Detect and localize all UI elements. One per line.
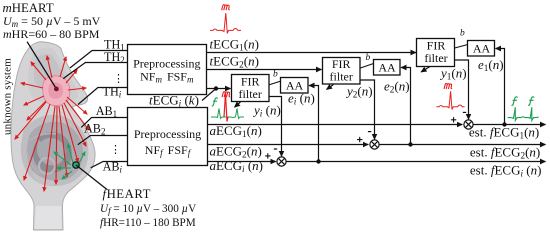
sum node i xyxy=(277,157,286,166)
svg-text:est. fECG2(n): est. fECG2(n) xyxy=(470,145,540,161)
m label red small xyxy=(222,92,230,98)
leader tECGi(k) xyxy=(202,89,216,101)
wire aECG2 to sum2 xyxy=(207,144,368,146)
FIR filter box channel 1 xyxy=(417,39,455,67)
svg-text:aECG1(n): aECG1(n) xyxy=(210,123,262,139)
svg-text:AB1: AB1 xyxy=(96,104,117,119)
node e1 tap dot xyxy=(502,122,506,126)
svg-text:⋮: ⋮ xyxy=(113,73,124,85)
svg-text:Preprocessing: Preprocessing xyxy=(133,56,200,70)
svg-text:NFm FSFm: NFm FSFm xyxy=(140,69,194,84)
svg-text:Preprocessing: Preprocessing xyxy=(134,127,201,141)
mHEART leader line xyxy=(27,42,56,89)
svg-text:filter: filter xyxy=(424,51,447,65)
wire aECG1 to sum1 xyxy=(207,124,462,126)
svg-text:THi: THi xyxy=(103,85,122,100)
svg-text:filter: filter xyxy=(239,87,262,101)
svg-text:e2(n): e2(n) xyxy=(384,79,410,95)
preprocessing box fetal U2 xyxy=(128,108,208,166)
svg-text:b: b xyxy=(273,70,278,80)
wire y2: FIR2 out down to sum 2 xyxy=(360,80,374,139)
svg-text:fHEART: fHEART xyxy=(103,187,151,201)
svg-text:ei (n): ei (n) xyxy=(288,91,315,107)
fHEART text block xyxy=(100,187,196,229)
svg-text:aECGi (n): aECGi (n) xyxy=(210,158,264,174)
b link FIRi to AAi xyxy=(269,81,281,85)
TH labels xyxy=(103,38,125,100)
wire e1: from dot up into AA1 xyxy=(496,49,505,125)
svg-text:NFf FSFf: NFf FSFf xyxy=(145,143,192,158)
plus sign sum i xyxy=(265,153,270,158)
plus sign sum1 xyxy=(451,117,456,122)
wire tECG2 xyxy=(207,69,322,71)
TH electrode wires xyxy=(63,51,127,105)
fHEART green dot xyxy=(73,162,79,168)
wire tECGi xyxy=(207,88,231,90)
AB labels xyxy=(84,104,123,175)
minus sign sum1 xyxy=(463,111,466,113)
belly uterus region xyxy=(21,115,89,186)
svg-text:est. fECGi (n): est. fECGi (n) xyxy=(470,163,542,179)
AA box channel 2 xyxy=(374,60,401,76)
svg-text:tECGi (k): tECGi (k) xyxy=(149,93,199,109)
svg-text:mHEART: mHEART xyxy=(3,1,54,15)
wire tECG1 xyxy=(207,52,417,54)
wire ei: from dot up into AAi xyxy=(309,86,319,162)
svg-text:AA: AA xyxy=(473,42,491,56)
svg-text:filter: filter xyxy=(330,70,353,84)
minus sign sum2 xyxy=(368,131,371,133)
sum node 2 xyxy=(370,140,379,149)
node ei tap dot xyxy=(316,159,320,163)
green arrows radiating from fetal heart xyxy=(54,144,85,179)
AA box channel 1 xyxy=(468,41,495,57)
chest inner shading xyxy=(28,48,78,103)
svg-text:b: b xyxy=(460,29,465,39)
svg-text:AB2: AB2 xyxy=(84,122,105,137)
svg-text:tECG2(n): tECG2(n) xyxy=(210,54,259,70)
AA box channel i xyxy=(281,78,309,94)
m waveform above preprocessing (tECG1 illustration) xyxy=(210,13,241,34)
svg-text:yi (n): yi (n) xyxy=(252,103,281,119)
torso body silhouette xyxy=(11,42,95,230)
preprocessing box maternal U1 xyxy=(128,45,207,95)
svg-text:e1(n): e1(n) xyxy=(478,57,504,73)
svg-text:Uf = 10 µV – 300 µV: Uf = 10 µV – 300 µV xyxy=(100,203,196,216)
wire est fECG1 xyxy=(473,124,545,126)
sum node 1 xyxy=(464,120,473,129)
adaptation arrow FIR1 xyxy=(421,67,430,73)
svg-text:AA: AA xyxy=(378,61,396,75)
red arrows radiating from maternal heart xyxy=(15,56,89,191)
svg-text:b: b xyxy=(366,53,371,63)
svg-text:tECG1(n): tECG1(n) xyxy=(210,37,259,53)
svg-text:y2(n): y2(n) xyxy=(345,84,373,100)
heart pink blob (mHEART) xyxy=(43,76,70,106)
fetus shape xyxy=(33,132,72,173)
AB electrode wires xyxy=(78,118,128,168)
wire y1: FIR1 out down to sum 1 xyxy=(455,60,469,119)
b link FIR1 to AA1 xyxy=(455,45,468,49)
node tECGi junction dot xyxy=(214,86,218,90)
wire yi: FIRi out down to sum i xyxy=(269,97,282,157)
node e2 tap dot xyxy=(408,142,412,146)
adaptation arrow FIR2 xyxy=(327,85,334,90)
f label green small xyxy=(212,98,218,106)
FIR filter box channel i xyxy=(232,75,270,102)
wire est fECGi xyxy=(286,161,545,163)
fHEART leader line xyxy=(76,165,107,190)
svg-text:unknown system: unknown system xyxy=(2,58,14,135)
wire e2: from dot up into AA2 xyxy=(401,68,411,145)
green f waveform above est fECG1 xyxy=(508,107,539,120)
m label above sum1 xyxy=(444,83,452,89)
m waveform above sum1 xyxy=(436,91,464,109)
svg-text:mHR=60 – 80 BPM: mHR=60 – 80 BPM xyxy=(3,27,100,41)
plus sign sum2 xyxy=(357,137,362,142)
svg-text:fHR=110 – 180 BPM: fHR=110 – 180 BPM xyxy=(100,217,196,229)
wire aECGi to sum i xyxy=(207,161,275,163)
f labels green xyxy=(511,97,534,106)
m label (red) xyxy=(222,5,230,11)
mHEART text block xyxy=(3,1,101,41)
svg-text:y1(n): y1(n) xyxy=(439,66,467,82)
svg-text:⋮: ⋮ xyxy=(110,144,121,156)
b link FIR2 to AA2 xyxy=(360,64,373,69)
adaptation arrow FIRi xyxy=(235,102,241,107)
minus sign sum i xyxy=(274,148,277,150)
leg highlight xyxy=(35,206,63,229)
svg-text:est. fECG1(n): est. fECG1(n) xyxy=(469,125,539,141)
FIR filter box channel 2 xyxy=(323,57,361,84)
wire est fECG2 xyxy=(379,144,545,146)
m+f mixed waveform at FIRi input xyxy=(211,109,244,119)
